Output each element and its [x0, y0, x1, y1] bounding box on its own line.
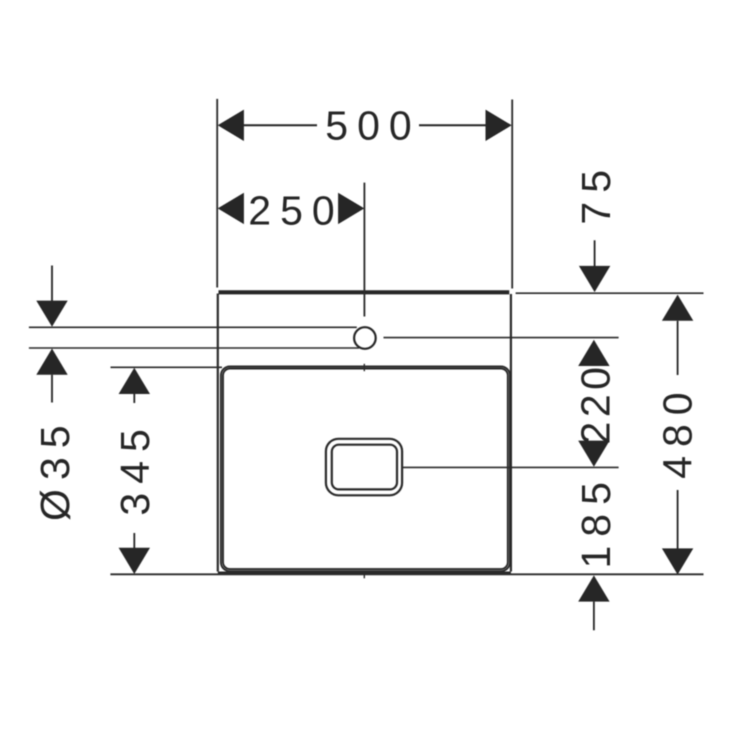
- svg-text:220: 220: [573, 363, 619, 445]
- svg-text:345: 345: [112, 420, 158, 515]
- extension line left (basin left plane): [216, 99, 218, 288]
- svg-text:250: 250: [248, 188, 343, 234]
- dimension 345 bottom stem: [133, 533, 135, 548]
- dimension 480 top stem: [677, 321, 679, 375]
- inner basin rim inner line: [223, 369, 508, 570]
- dimension 500 line segments: [244, 124, 486, 126]
- svg-text:480: 480: [655, 383, 701, 478]
- dimension O35 bottom stem: [51, 375, 53, 403]
- extension line of inner basin top to the left: [111, 366, 223, 368]
- dimension 500 right arrow: [486, 110, 512, 141]
- dimension 250 left arrow: [218, 193, 244, 224]
- center tick on basin bottom edge: [363, 571, 365, 579]
- svg-text:Ø35: Ø35: [32, 416, 78, 521]
- dimension O35 top stem: [51, 266, 53, 302]
- dimension O35 upper tangent line: [29, 326, 357, 328]
- inner basin rim outer line: [221, 366, 510, 571]
- washbasin outer body (left, right, bottom edges): [218, 294, 511, 573]
- dimension 480 bottom stem: [677, 490, 679, 549]
- dimension 345 bottom arrow (down): [119, 548, 150, 574]
- svg-text:185: 185: [573, 473, 619, 568]
- extension line right (basin right plane): [511, 100, 513, 289]
- dimension 345 top arrow (up): [119, 368, 150, 394]
- dimension 480 top arrow (up): [662, 295, 693, 321]
- dimension 220 top arrow (up): [578, 340, 609, 366]
- dimension 480 bottom arrow (down): [662, 548, 693, 574]
- dimension 185 bottom stem: [593, 602, 595, 631]
- drain inner rounded rectangle: [332, 445, 397, 490]
- dimension 75 arrow (down): [579, 266, 610, 292]
- svg-text:75: 75: [573, 161, 619, 225]
- dimension O35 bottom arrow (up): [36, 349, 67, 375]
- leader line from drain to right: [403, 466, 619, 468]
- extension line of top edge to the right: [516, 292, 704, 294]
- dimension 345 top stem: [133, 394, 135, 403]
- dimension 500 left arrow: [218, 110, 244, 141]
- leader line from faucet hole to right: [384, 337, 619, 339]
- bottom reference line (basin bottom plane, long): [110, 573, 703, 575]
- dimension 220 bottom arrow (down): [578, 441, 609, 467]
- drain outer rounded rectangle: [326, 439, 402, 496]
- dimension 185 bottom arrow (up, below line): [578, 575, 609, 601]
- dimension 75 stem: [594, 240, 596, 266]
- faucet hole circle: [354, 327, 376, 349]
- dimension O35 top arrow (down): [36, 301, 67, 327]
- svg-text:500: 500: [325, 103, 420, 149]
- center line (tap hole axis): [363, 183, 365, 317]
- washbasin top edge (thick rear rim): [219, 290, 510, 294]
- center tick on inner basin top edge: [363, 364, 365, 371]
- dimension 250 right arrow: [338, 193, 364, 224]
- dimension O35 lower tangent line: [29, 347, 359, 349]
